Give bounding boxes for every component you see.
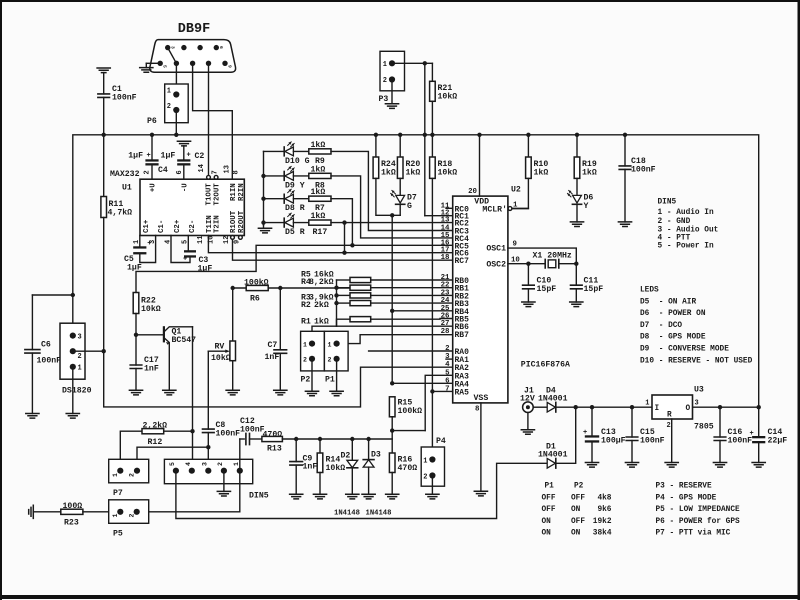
- wire R5 to PIC: [371, 279, 453, 281]
- wire D2 ground: [351, 468, 353, 495]
- MAX232 pin12 circle: [231, 236, 235, 240]
- svg-text:D10 G: D10 G: [285, 157, 310, 166]
- node bus: [423, 133, 427, 137]
- node bus: [102, 133, 106, 137]
- svg-text:8: 8: [475, 406, 480, 414]
- node RC5/R7: [350, 243, 354, 247]
- node RA4: [390, 381, 394, 385]
- wire R19 to D6: [576, 178, 578, 195]
- svg-text:1kΩ: 1kΩ: [314, 317, 329, 327]
- wire MCLR to R10: [512, 208, 528, 210]
- wire data to RA2 route: [104, 351, 453, 407]
- svg-text:R13: R13: [267, 445, 282, 454]
- wire R2 to PIC: [371, 302, 453, 304]
- svg-text:100Ω: 100Ω: [63, 502, 83, 511]
- capacitor C3: [184, 250, 196, 252]
- connector P6 box: [165, 84, 189, 123]
- node bus: [526, 133, 530, 137]
- connector P1 box: [324, 331, 348, 371]
- svg-text:9: 9: [227, 65, 233, 68]
- svg-text:R1IN: R1IN: [230, 183, 238, 201]
- svg-text:470Ω: 470Ω: [263, 431, 283, 440]
- node R12/Q1: [190, 429, 194, 433]
- svg-text:2: 2: [167, 103, 171, 111]
- svg-text:3: 3: [78, 334, 82, 342]
- wire bus to C18: [624, 135, 626, 166]
- svg-text:4: 4: [445, 361, 450, 369]
- RC0 stub: [446, 207, 453, 209]
- wire D7 down: [399, 204, 401, 215]
- wire R23 to P5: [83, 511, 120, 513]
- ground Q1 emitter: [163, 390, 176, 395]
- P4 pin 2: [429, 472, 435, 478]
- DB9F bottom pin 0: [158, 61, 163, 66]
- svg-text:6: 6: [445, 377, 450, 385]
- svg-text:R23: R23: [64, 519, 79, 528]
- wire R1OUT to RC7: [233, 239, 453, 260]
- svg-text:P3 - RESERVE: P3 - RESERVE: [656, 483, 712, 491]
- wire R10 to MCLR: [512, 178, 528, 208]
- node main line: [590, 405, 594, 409]
- svg-text:1kΩ: 1kΩ: [534, 168, 549, 178]
- wire C11 stem: [575, 264, 577, 286]
- node C8/P7: [206, 445, 210, 449]
- wire pin1 down: [139, 236, 141, 247]
- svg-text:U3: U3: [694, 386, 704, 395]
- wire D3 ground: [368, 467, 370, 494]
- wire R22 to base node: [135, 314, 137, 335]
- DB9F bottom pin 4: [222, 61, 227, 66]
- svg-text:PIC16F876A: PIC16F876A: [521, 361, 570, 370]
- svg-text:D8 R: D8 R: [285, 204, 305, 213]
- svg-text:1: 1: [112, 514, 119, 518]
- node bus: [430, 133, 434, 137]
- wire C14 ground: [758, 443, 760, 462]
- svg-text:P5: P5: [113, 530, 123, 539]
- svg-text:18: 18: [441, 254, 450, 262]
- wire RA0 line: [369, 350, 453, 352]
- resistor R15: [389, 397, 395, 417]
- wire C6 branch: [32, 294, 72, 296]
- svg-text:2: 2: [128, 514, 135, 518]
- resistor R3: [350, 293, 371, 298]
- svg-text:D10 - RESERVE - NOT USED: D10 - RESERVE - NOT USED: [640, 357, 753, 365]
- node bus: [623, 133, 627, 137]
- svg-text:2: 2: [129, 473, 136, 477]
- svg-text:P6 - POWER for GPS: P6 - POWER for GPS: [656, 518, 741, 526]
- wire R12 line: [121, 430, 192, 432]
- ground C2: [177, 141, 190, 146]
- svg-text:RV: RV: [215, 343, 225, 352]
- wire C6 stem: [31, 295, 33, 350]
- connector P2 box: [301, 331, 325, 371]
- svg-text:4,7kΩ: 4,7kΩ: [108, 208, 133, 218]
- svg-text:1µF: 1µF: [128, 152, 143, 161]
- svg-text:1kΩ: 1kΩ: [311, 211, 326, 221]
- wire rail to LED D8 R: [264, 198, 285, 200]
- P1 pin 2: [334, 356, 340, 362]
- svg-text:1: 1: [645, 400, 649, 408]
- connector J1: [523, 402, 534, 413]
- wire P4 pin2 ground: [431, 479, 433, 495]
- svg-text:470Ω: 470Ω: [398, 464, 418, 473]
- wire main 5V line: [556, 406, 759, 408]
- wire R11 to DS1820 node: [103, 218, 105, 352]
- svg-text:C7: C7: [268, 341, 278, 350]
- svg-text:5: 5: [162, 65, 168, 68]
- wire C3 loop: [171, 236, 190, 263]
- wire LED to R17: [293, 222, 308, 224]
- connector P7 box: [109, 459, 149, 483]
- wire R8 to RC4: [331, 176, 453, 238]
- resistor R22: [133, 293, 139, 314]
- svg-text:C2-: C2-: [189, 220, 197, 233]
- wire C15 ground: [631, 441, 633, 463]
- svg-text:100kΩ: 100kΩ: [244, 278, 269, 288]
- svg-text:1: 1: [112, 473, 119, 477]
- svg-text:1: 1: [303, 341, 307, 348]
- svg-text:C6: C6: [41, 341, 51, 350]
- wire DIN5 pin1 to P5: [137, 471, 240, 512]
- capacitor C2: [177, 159, 190, 161]
- wire C18 to ground: [624, 169, 626, 222]
- svg-text:R2IN: R2IN: [238, 183, 246, 201]
- diode D3: [363, 459, 374, 461]
- svg-text:1N4148: 1N4148: [334, 510, 360, 518]
- wire C14 stem: [758, 407, 760, 436]
- resistor R7: [309, 196, 331, 201]
- svg-text:3: 3: [695, 400, 699, 408]
- svg-text:1: 1: [383, 61, 387, 69]
- DB9F top pin 2: [197, 45, 202, 50]
- svg-text:R6: R6: [250, 295, 260, 304]
- wire R14 top: [319, 439, 321, 453]
- wire R3 to PIC: [371, 294, 453, 296]
- ground D6: [570, 222, 583, 227]
- wire R12 to P7: [119, 431, 121, 471]
- svg-text:C4: C4: [158, 166, 168, 175]
- MAX232 pin7 circle: [214, 175, 218, 179]
- node audio line: [294, 437, 298, 441]
- svg-text:14: 14: [198, 164, 206, 172]
- wire OSC2: [508, 263, 545, 265]
- wire DB9 pin2 down to P6: [175, 63, 177, 94]
- wire LED to R9: [293, 150, 308, 152]
- wire C9 stem: [295, 439, 297, 462]
- svg-text:12: 12: [223, 236, 231, 244]
- wire X1 right: [559, 263, 577, 265]
- svg-text:9: 9: [234, 240, 242, 244]
- DB9F top pin 0: [165, 45, 170, 50]
- DIN5 pin 1: [237, 468, 243, 474]
- wire C17 stem: [135, 335, 137, 365]
- capacitor C9: [290, 462, 303, 466]
- svg-text:15pF: 15pF: [537, 285, 557, 294]
- resistor R13: [262, 436, 283, 441]
- svg-text:5: 5: [445, 369, 450, 377]
- DB9F top pin 1: [181, 45, 186, 50]
- svg-text:R17: R17: [313, 228, 328, 237]
- DIN5 pin 5: [173, 468, 179, 474]
- wire DIN5 pin5 to D1 route: [176, 463, 547, 518]
- ic U2 PIC16F876A box: [453, 196, 508, 403]
- connector P5 box: [109, 500, 149, 524]
- resistor R17: [309, 220, 331, 225]
- node C10: [526, 262, 530, 266]
- svg-text:T2IN: T2IN: [214, 215, 222, 233]
- svg-text:OFF: OFF: [571, 494, 585, 502]
- capacitor C12: [246, 433, 250, 444]
- P4 pin 1: [429, 456, 435, 462]
- wire DB9 pin5 to ground: [146, 62, 160, 64]
- node bus: [174, 133, 178, 137]
- wire base: [136, 334, 164, 336]
- DB9F bottom pin 3: [206, 61, 211, 66]
- node rail D8 R: [261, 197, 265, 201]
- svg-text:2: 2: [144, 170, 152, 174]
- wire DB9 pin4 to MAX232 T1OUT: [208, 63, 210, 175]
- wire R1 left: [337, 319, 351, 326]
- svg-text:R12: R12: [148, 438, 163, 447]
- wire bus to R10: [527, 135, 529, 157]
- connector P4 box: [421, 447, 444, 486]
- wire VSS down: [480, 403, 482, 491]
- capacitor C18: [619, 166, 631, 170]
- wire junction to RA3: [392, 430, 425, 432]
- svg-text:100nF: 100nF: [728, 437, 753, 446]
- svg-text:P7 - PTT via MIC: P7 - PTT via MIC: [656, 530, 731, 538]
- wire P3 pin1 right: [395, 62, 432, 64]
- svg-text:ON: ON: [571, 530, 581, 538]
- MAX232 pin14 circle: [207, 175, 211, 179]
- wire ladder stub R4: [337, 287, 351, 289]
- wire R15 junction: [391, 417, 393, 453]
- wire C10 stem: [527, 264, 529, 286]
- svg-text:MAX232: MAX232: [110, 170, 140, 179]
- svg-text:D6 - POWER ON: D6 - POWER ON: [640, 310, 706, 318]
- node RC6 join: [342, 251, 346, 255]
- node main line: [574, 405, 578, 409]
- capacitor C14: [752, 436, 765, 438]
- node R17 branch: [342, 220, 346, 224]
- resistor R5: [350, 277, 371, 282]
- P5 pin 2: [134, 509, 140, 515]
- resistor R10: [526, 157, 532, 178]
- ground C18: [618, 222, 631, 227]
- svg-text:1nF: 1nF: [265, 353, 280, 362]
- svg-text:Y: Y: [584, 202, 589, 211]
- RV wiper arrow: [208, 350, 227, 352]
- node bus: [575, 133, 579, 137]
- wire R18 down to RA5: [431, 178, 433, 391]
- svg-text:10kΩ: 10kΩ: [438, 168, 458, 178]
- svg-text:D2: D2: [341, 452, 351, 461]
- svg-text:38k4: 38k4: [593, 530, 612, 538]
- wire RB4 line: [392, 310, 453, 312]
- wire P6 pin2 to bus: [175, 113, 177, 135]
- wire C7 ground: [279, 353, 281, 390]
- P6 pin 1: [173, 91, 179, 97]
- svg-text:5 - Power In: 5 - Power In: [658, 243, 714, 251]
- wire RB7 line: [337, 335, 453, 344]
- svg-text:P5 - LOW IMPEDANCE: P5 - LOW IMPEDANCE: [656, 506, 741, 514]
- svg-text:D5 - ON AIR: D5 - ON AIR: [640, 298, 696, 306]
- resistor R2: [350, 301, 371, 306]
- wire RA4 line: [392, 382, 453, 384]
- ground VSS: [474, 491, 487, 496]
- svg-text:1nF: 1nF: [303, 463, 318, 472]
- svg-text:VSS: VSS: [474, 394, 489, 403]
- ic DS1820 box: [60, 323, 85, 379]
- svg-text:X1 20MHz: X1 20MHz: [533, 252, 572, 261]
- wire D7 net to RA4: [391, 311, 393, 384]
- wire RC1 line: [425, 215, 453, 217]
- svg-text:12V: 12V: [520, 395, 535, 404]
- wire C10 ground: [527, 289, 529, 302]
- ic U1 MAX232 box: [140, 179, 244, 235]
- svg-text:1kΩ: 1kΩ: [381, 168, 396, 178]
- wire DIN5 pin1 up: [239, 439, 241, 471]
- capacitor C17: [130, 365, 142, 369]
- svg-text:OFF: OFF: [542, 506, 556, 514]
- resistor R11: [101, 197, 107, 218]
- svg-text:20: 20: [468, 188, 477, 196]
- svg-text:D9 Y: D9 Y: [285, 181, 305, 190]
- svg-text:+: +: [147, 152, 151, 160]
- svg-text:15pF: 15pF: [584, 285, 604, 294]
- wire bus to R20: [399, 135, 401, 157]
- wire RA5 line: [432, 390, 452, 392]
- wire DS pin2 to rail: [73, 350, 104, 352]
- node audio line: [350, 437, 354, 441]
- wire LED rail: [263, 151, 265, 225]
- node R15/R16: [390, 428, 394, 432]
- svg-text:2: 2: [445, 345, 449, 353]
- DIN5 pin 4: [189, 468, 195, 474]
- wire DS pin1 ground: [72, 367, 74, 414]
- svg-text:11: 11: [197, 236, 205, 244]
- wire C1 to bus: [103, 97, 105, 134]
- capacitor C15: [626, 437, 638, 441]
- svg-text:100nF: 100nF: [240, 425, 265, 434]
- resistor R18: [430, 157, 436, 178]
- svg-text:DB9F: DB9F: [178, 22, 210, 37]
- svg-text:7: 7: [445, 385, 449, 393]
- wire R4 to PIC: [371, 287, 453, 289]
- wire ground to R23: [33, 511, 61, 513]
- node bus: [150, 133, 154, 137]
- capacitor C11: [571, 285, 583, 289]
- svg-text:DIN5: DIN5: [658, 199, 677, 207]
- resistor R9: [309, 149, 331, 154]
- svg-text:D7 - DCO: D7 - DCO: [640, 322, 682, 330]
- svg-text:1: 1: [233, 462, 240, 466]
- wire R14 ground: [319, 473, 321, 495]
- led D9 Y: [283, 172, 285, 181]
- wire J1 ground: [527, 413, 529, 430]
- node main line: [630, 405, 634, 409]
- svg-text:OSC1: OSC1: [486, 245, 506, 254]
- wire C9 ground: [295, 465, 297, 494]
- node RA5 join: [430, 389, 434, 393]
- wire R21-R18-RA5-P4 vertical: [431, 135, 433, 157]
- node audio line: [318, 437, 322, 441]
- DS1820 pin 3: [70, 333, 76, 339]
- svg-text:P2: P2: [301, 376, 311, 385]
- wire R9 to RC3: [331, 151, 453, 230]
- svg-text:3 - Audio Out: 3 - Audio Out: [658, 227, 719, 235]
- node DS1820 data: [102, 349, 106, 353]
- svg-text:100nF: 100nF: [640, 437, 665, 446]
- crystal X1: [545, 259, 559, 268]
- wire C15 stem: [631, 407, 633, 437]
- svg-text:1 - Audio In: 1 - Audio In: [658, 209, 714, 217]
- svg-text:100nF: 100nF: [631, 166, 656, 175]
- svg-text:2: 2: [328, 356, 332, 363]
- wire RV stem top: [232, 288, 234, 341]
- transistor Q1: [163, 327, 165, 341]
- svg-text:100nF: 100nF: [216, 430, 241, 439]
- P2 pin 1: [309, 341, 315, 347]
- svg-text:1: 1: [328, 341, 332, 348]
- svg-text:2: 2: [78, 353, 82, 361]
- ground C1 top: [97, 68, 110, 73]
- svg-text:6: 6: [218, 46, 224, 49]
- svg-text:3: 3: [170, 46, 176, 49]
- resistor R14: [317, 453, 323, 473]
- wire LED to R7: [293, 198, 308, 200]
- svg-text:C1-: C1-: [158, 220, 166, 233]
- wire P3 pin2 down: [391, 83, 393, 104]
- node C6 branch: [71, 293, 75, 297]
- ground LED rail: [263, 225, 265, 228]
- svg-text:1nF: 1nF: [144, 365, 159, 374]
- svg-text:3: 3: [201, 462, 208, 466]
- DS1820 pin 2: [70, 348, 76, 354]
- wire C16 stem: [719, 407, 721, 437]
- wire RA3 line: [425, 375, 453, 430]
- DIN5 pin 2: [221, 468, 227, 474]
- capacitor C6: [25, 350, 40, 354]
- capacitor C7: [274, 350, 287, 354]
- capacitor C1: [98, 94, 110, 98]
- svg-text:+: +: [187, 152, 191, 160]
- node D7 net: [390, 213, 394, 217]
- RA1 stub: [446, 358, 453, 360]
- wire T1IN to RC6: [208, 236, 452, 253]
- wire OSC1: [508, 248, 576, 264]
- svg-text:7: 7: [212, 170, 220, 174]
- svg-text:4 - PTT: 4 - PTT: [658, 235, 691, 243]
- P3 pin 2: [389, 76, 395, 82]
- capacitor C16: [714, 437, 726, 441]
- wire R24 down: [376, 178, 400, 215]
- wire RC5 to R22 line: [136, 245, 453, 292]
- svg-text:P7: P7: [113, 489, 123, 498]
- svg-text:100nF: 100nF: [112, 94, 137, 103]
- node ladder R4: [334, 286, 338, 290]
- svg-text:RB7: RB7: [455, 331, 470, 340]
- connector DB9F shell: [150, 40, 236, 73]
- svg-text:8: 8: [233, 170, 241, 174]
- wire C4 to pin2: [151, 166, 153, 180]
- wire R21 top: [431, 63, 433, 81]
- wire C5 loop: [140, 236, 156, 263]
- node bus: [477, 133, 481, 137]
- DB9F top pin 3: [214, 45, 219, 50]
- svg-text:5: 5: [169, 462, 176, 466]
- svg-text:1µF: 1µF: [161, 152, 176, 161]
